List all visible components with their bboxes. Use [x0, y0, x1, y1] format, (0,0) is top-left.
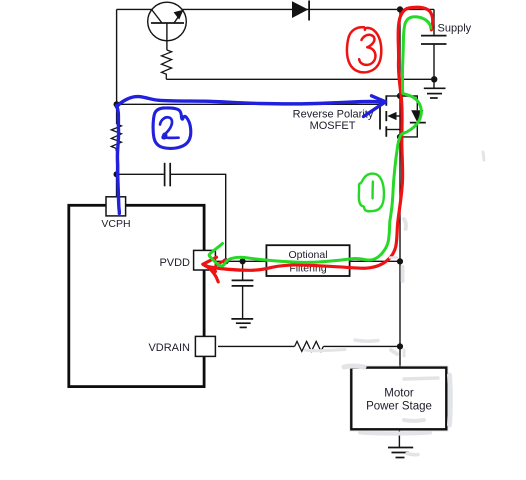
svg-text:MOSFET: MOSFET [310, 120, 356, 132]
svg-text:Optional: Optional [288, 249, 327, 261]
svg-text:Motor: Motor [384, 387, 414, 399]
svg-text:Reverse Polarity: Reverse Polarity [293, 108, 374, 120]
svg-text:Power Stage: Power Stage [366, 400, 432, 412]
svg-text:PVDD: PVDD [159, 257, 190, 269]
svg-text:VDRAIN: VDRAIN [148, 342, 190, 354]
svg-text:Supply: Supply [438, 22, 472, 34]
svg-text:VCPH: VCPH [101, 218, 130, 230]
